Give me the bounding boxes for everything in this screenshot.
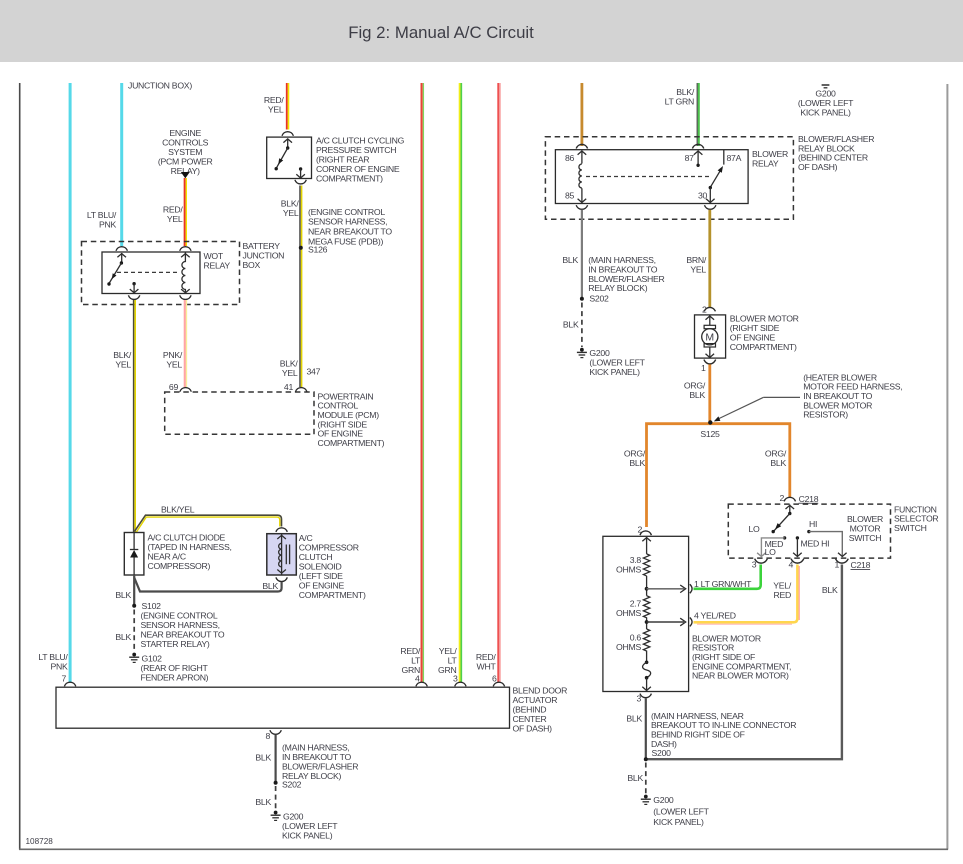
svg-text:RED/: RED/ [400,646,421,656]
svg-text:SYSTEM: SYSTEM [168,147,202,157]
svg-text:87A: 87A [727,153,742,163]
svg-text:PNK: PNK [50,662,68,672]
svg-text:BATTERY: BATTERY [243,241,281,251]
header bar [0,0,963,62]
actuator pin 7 arc [61,674,75,687]
relay arc pin 30 bottom [705,205,716,209]
svg-text:WHT: WHT [477,662,497,672]
svg-text:COMPARTMENT): COMPARTMENT) [316,174,383,184]
svg-text:RED/: RED/ [476,652,497,662]
wire BLK dashed to G200 mid [563,303,582,348]
wire BLK dashed to G200 lower right [627,763,645,795]
svg-text:MOTOR: MOTOR [850,524,881,534]
svg-text:A/C: A/C [299,533,313,543]
wire BLK/YEL from WOT relay down to diode [113,300,135,533]
wire BLK solenoid to diode junction [134,578,281,592]
splice S125 [700,420,720,439]
splice S202 mid [580,294,609,304]
svg-text:(MAIN HARNESS,: (MAIN HARNESS, [282,743,350,753]
svg-text:OHMS: OHMS [616,608,641,618]
svg-text:1: 1 [701,363,706,373]
ground G200 mid [577,348,646,377]
svg-text:OF ENGINE: OF ENGINE [730,332,776,342]
PCM pin 41 arc [284,382,307,392]
svg-text:BLK/: BLK/ [281,199,300,209]
WOT relay bottom arc (PNK/YEL) [180,295,191,299]
ground G200 lower left [271,811,339,841]
PCM pin 69 arc [169,382,191,392]
svg-text:NEAR A/C: NEAR A/C [148,551,186,561]
wire BLK actuator to S202 [255,735,358,783]
wire RED/WHT long [498,83,500,682]
tap 1 junction and arrow to terminal 1 [645,579,752,593]
svg-text:ORG/: ORG/ [624,449,646,459]
switch MED HI contact to pin 4 [793,536,829,556]
svg-text:IN BREAKOUT TO: IN BREAKOUT TO [282,752,351,762]
svg-text:BLK: BLK [626,714,642,724]
svg-text:RELAY BLOCK): RELAY BLOCK) [588,283,647,293]
svg-text:BLK: BLK [689,390,705,400]
relay link dashed [586,176,709,178]
svg-text:KICK PANEL): KICK PANEL) [589,367,640,377]
svg-text:YEL: YEL [690,264,706,274]
svg-text:BLOWER: BLOWER [752,149,788,159]
svg-text:3.8: 3.8 [630,555,642,565]
relay coil 86-85 [565,151,586,204]
function selector switch (dashed) [728,504,938,558]
ground G102 [129,653,208,683]
wire RED/YEL from triangle to WOT relay [163,178,186,246]
relay contact 87A stub and switch [710,150,741,188]
svg-text:KICK PANEL): KICK PANEL) [653,817,704,827]
relay arc pin 87 top [692,144,703,148]
svg-text:ENGINE: ENGINE [169,128,201,138]
connector C218 bottom arcs [752,559,871,570]
svg-text:8: 8 [265,731,270,741]
svg-text:JUNCTION: JUNCTION [243,251,285,261]
label BLK/YEL near switch [281,199,300,219]
svg-text:RELAY: RELAY [752,158,779,168]
svg-text:7: 7 [61,674,66,684]
svg-text:2: 2 [779,493,784,503]
svg-text:(BEHIND: (BEHIND [513,704,547,714]
svg-text:SWITCH: SWITCH [849,533,882,543]
svg-text:COMPARTMENT): COMPARTMENT) [299,590,366,600]
resistor pin 3 arc [636,693,651,703]
battery junction box (dashed) [82,241,285,304]
WOT relay coil [181,253,190,294]
svg-text:4 YEL/RED: 4 YEL/RED [694,611,736,621]
node label JUNCTION BOX (clipped remnant) [128,81,192,91]
svg-text:BLK/: BLK/ [113,350,132,360]
svg-text:PNK: PNK [99,220,117,230]
actuator pin 4 arc [415,674,427,687]
svg-text:LT GRN: LT GRN [665,96,694,106]
svg-text:STARTER RELAY): STARTER RELAY) [141,639,210,649]
wire YEL/LT GRN long [460,83,462,682]
splice S200 [644,757,648,761]
blower motor resistor box [603,536,791,691]
thermal limiter [642,661,651,691]
svg-text:BLOWER MOTOR: BLOWER MOTOR [730,313,799,323]
svg-text:BLK: BLK [255,752,271,762]
svg-text:A/C CLUTCH DIODE: A/C CLUTCH DIODE [148,532,226,542]
svg-text:OHMS: OHMS [616,565,641,575]
pressure switch top arc [282,132,293,136]
svg-text:86: 86 [565,153,575,163]
wire BLK diode to S102 [115,575,134,606]
svg-text:ACTUATOR: ACTUATOR [513,695,558,705]
svg-text:LO: LO [748,524,760,534]
svg-text:BLK/: BLK/ [280,359,299,369]
label RED/LT GRN at actuator [400,646,421,675]
svg-text:SOLENOID: SOLENOID [299,561,342,571]
svg-text:NEAR BREAKOUT TO: NEAR BREAKOUT TO [141,629,225,639]
switch MED LO contact to pin 3 [757,536,786,557]
power feed triangle [181,172,190,178]
wire BLK switch pin 1 to S200 [646,565,842,760]
svg-text:YEL: YEL [166,360,182,370]
splice S126 [299,207,393,255]
svg-text:S202: S202 [282,779,302,789]
svg-text:69: 69 [169,382,179,392]
svg-text:YEL: YEL [268,105,284,115]
wire PNK/YEL from WOT relay to PCM 69 [163,300,187,387]
wire BLK relay 85 to S202 [562,210,664,299]
resistor R2 2.7 OHMS [616,596,650,629]
wire BLK resistor pin 3 to S200 [626,698,796,759]
blower motor switch wiper [748,505,794,534]
svg-text:KICK PANEL): KICK PANEL) [800,107,851,117]
svg-text:HI: HI [809,519,817,529]
svg-text:A/C CLUTCH CYCLING: A/C CLUTCH CYCLING [316,136,405,146]
svg-text:WOT: WOT [204,251,224,261]
blower relay box [555,149,788,204]
actuator pin 8 arc [265,730,281,741]
svg-text:BOX: BOX [243,260,261,270]
label ENGINE CONTROLS SYSTEM (PCM POWER RELAY) [158,128,213,176]
svg-text:S126: S126 [308,244,328,254]
svg-text:BLK: BLK [627,773,643,783]
WOT relay terminal arc pin (coil top, cyan) [116,247,127,251]
relay arc pin 86 top [576,144,587,148]
svg-text:LT BLU/: LT BLU/ [38,652,68,662]
solenoid top arc [276,528,287,532]
label YEL/LT GRN at actuator [438,646,457,675]
svg-text:BLK: BLK [115,590,131,600]
svg-text:G200: G200 [815,88,836,98]
svg-text:BLK: BLK [255,797,271,807]
tap 2 junction and arrow to terminal 4 [645,611,736,627]
wire ORG/BLK motor to S125 [684,364,710,422]
wire BRN/YEL relay 30 to blower motor [686,210,709,308]
svg-text:OHMS: OHMS [616,642,641,652]
WOT relay bottom arc (BLK/YEL) [128,295,139,299]
svg-text:RED: RED [773,590,791,600]
svg-text:COMPRESSOR: COMPRESSOR [299,542,359,552]
svg-text:BLK/: BLK/ [676,87,695,97]
svg-text:FENDER APRON): FENDER APRON) [141,672,209,682]
svg-text:(ENGINE CONTROL: (ENGINE CONTROL [308,207,385,217]
wire BLK/YEL branch to solenoid [134,504,281,533]
svg-text:BLEND DOOR: BLEND DOOR [513,685,568,695]
svg-text:BRN/: BRN/ [686,255,707,265]
svg-text:(REAR OF RIGHT: (REAR OF RIGHT [141,663,209,673]
svg-text:NEAR BREAKOUT TO: NEAR BREAKOUT TO [308,227,392,237]
splice S102 [132,601,225,649]
svg-text:COMPARTMENT): COMPARTMENT) [730,342,797,352]
wire to tap 1 [646,576,648,596]
wire BLK/YEL pressure switch to PCM 41 [280,186,321,388]
svg-text:(RIGHT SIDE: (RIGHT SIDE [730,323,780,333]
svg-text:(PCM POWER: (PCM POWER [158,156,213,166]
svg-text:Fig 2: Manual A/C Circuit: Fig 2: Manual A/C Circuit [348,23,534,42]
svg-text:YEL: YEL [167,214,183,224]
svg-text:S200: S200 [652,748,672,758]
leader note heater blower harness [714,372,903,421]
relay arc pin 85 bottom [576,205,587,209]
svg-text:(LEFT SIDE: (LEFT SIDE [299,571,343,581]
blower motor pin 2 arc [702,304,716,314]
svg-text:G200: G200 [653,795,674,805]
svg-text:0.6: 0.6 [630,633,642,643]
svg-text:YEL: YEL [115,360,131,370]
svg-text:OF DASH): OF DASH) [798,162,838,172]
svg-text:RELAY: RELAY [204,261,231,271]
svg-text:PRESSURE SWITCH: PRESSURE SWITCH [316,145,396,155]
wire LT BLU/PNK to WOT relay [120,83,123,246]
blower/flasher relay block (dashed) [545,134,874,219]
wire ORG/BLK S125 branch left and right [624,424,790,527]
wire BLK dashed to G102 [115,610,134,653]
svg-text:(LOWER LEFT: (LOWER LEFT [798,98,854,108]
svg-text:MED HI: MED HI [801,539,830,549]
wire RED/YEL to pressure switch [287,83,289,130]
wire YEL/RED resistor to switch pin 4 [694,565,800,625]
WOT relay link (dashed) [117,271,178,273]
blend door actuator box [56,685,567,733]
splice S202 lower [274,779,302,789]
svg-text:NEAR BLOWER MOTOR): NEAR BLOWER MOTOR) [692,671,789,681]
relay contact 87 stub [685,151,703,168]
label RED/WHT at actuator [476,652,497,672]
resistor input arrow [642,537,651,554]
svg-text:YEL/: YEL/ [773,580,792,590]
svg-text:RED/: RED/ [264,95,285,105]
switch HI contact to pin 1 [807,519,846,556]
svg-text:LT: LT [448,656,458,666]
svg-text:LT BLU/: LT BLU/ [87,210,117,220]
A/C clutch cycling pressure switch [267,136,405,184]
label LT BLU/PNK upper [87,210,117,230]
svg-text:ORG/: ORG/ [765,449,787,459]
svg-text:BLK: BLK [115,632,131,642]
svg-text:108728: 108728 [26,837,54,846]
svg-text:S102: S102 [142,601,162,611]
svg-text:CONTROLS: CONTROLS [162,137,209,147]
wire BLK dashed to G200 lower left [255,786,275,811]
WOT relay terminal arc (contact top, red) [180,247,191,251]
svg-text:(LOWER LEFT: (LOWER LEFT [589,358,645,368]
svg-text:S125: S125 [700,429,720,439]
svg-text:(RIGHT REAR: (RIGHT REAR [316,155,369,165]
svg-text:CORNER OF ENGINE: CORNER OF ENGINE [316,164,400,174]
resistor R3 0.6 OHMS [616,629,650,662]
svg-text:BLK: BLK [562,255,578,265]
blower motor pin 1 arc [701,360,716,374]
svg-text:C218: C218 [799,494,819,504]
svg-text:(TAPED IN HARNESS,: (TAPED IN HARNESS, [148,542,232,552]
svg-text:COMPRESSOR): COMPRESSOR) [148,561,211,571]
wire RED/LT GRN long [422,83,424,682]
svg-text:SENSOR HARNESS,: SENSOR HARNESS, [141,620,220,630]
svg-text:ORG/: ORG/ [684,380,706,390]
svg-text:BLK: BLK [563,320,579,330]
svg-text:BLK: BLK [629,458,645,468]
svg-text:JUNCTION BOX): JUNCTION BOX) [128,81,192,91]
wire BLK/LT GRN to blower relay 87 [665,83,699,146]
svg-text:BLOWER: BLOWER [847,514,883,524]
svg-text:PNK/: PNK/ [163,350,183,360]
A/C clutch diode [124,532,231,575]
WOT relay switch contact [107,253,126,286]
svg-text:CLUTCH: CLUTCH [299,552,333,562]
WOT relay U-BJB [102,251,230,293]
svg-text:S202: S202 [589,294,609,304]
svg-text:(ENGINE CONTROL: (ENGINE CONTROL [141,610,218,620]
actuator pin 6 arc [492,674,505,687]
svg-text:SWITCH: SWITCH [894,523,927,533]
svg-text:41: 41 [284,382,294,392]
svg-text:2.7: 2.7 [630,599,642,609]
svg-text:YEL/: YEL/ [439,646,458,656]
svg-text:SENSOR HARNESS,: SENSOR HARNESS, [308,217,387,227]
svg-text:G200: G200 [589,348,610,358]
wire BRN to blower relay 86 [581,83,584,146]
svg-text:(LOWER LEFT: (LOWER LEFT [282,821,338,831]
svg-text:BLK: BLK [262,581,278,591]
svg-text:OF DASH): OF DASH) [513,723,553,733]
svg-text:KICK PANEL): KICK PANEL) [282,830,333,840]
svg-text:LO: LO [765,547,777,557]
svg-text:85: 85 [565,191,575,201]
svg-text:BLK: BLK [770,458,786,468]
svg-text:CENTER: CENTER [513,714,547,724]
svg-text:OF ENGINE: OF ENGINE [299,580,345,590]
solenoid bottom arc [262,577,287,590]
svg-text:BLK/YEL: BLK/YEL [161,504,195,514]
svg-text:RESISTOR): RESISTOR) [803,410,848,420]
pressure switch contacts [275,139,305,179]
svg-text:M: M [705,332,714,344]
label RED/YEL upper [264,95,285,115]
resistor pin 2 arc [637,524,651,535]
svg-text:347: 347 [307,366,321,376]
actuator pin 3 arc [453,674,466,687]
svg-text:BLOWER/FLASHER: BLOWER/FLASHER [282,762,358,772]
svg-text:G102: G102 [142,653,163,663]
svg-text:G200: G200 [283,811,304,821]
ground G200 top right [798,85,854,117]
relay pin 30 [698,186,715,203]
blower motor M1 [695,313,799,358]
svg-text:RED/: RED/ [163,205,184,215]
WOT relay common terminal w arrow [130,282,139,293]
svg-text:COMPARTMENT): COMPARTMENT) [318,438,385,448]
svg-text:BLK: BLK [822,585,838,595]
svg-text:(LOWER LEFT: (LOWER LEFT [653,807,709,817]
A/C compressor clutch solenoid [267,533,366,600]
resistor R1 3.8 OHMS [616,554,650,576]
wire LT GRN/WHT resistor to switch pin 3 [694,565,761,589]
svg-text:87: 87 [685,153,695,163]
svg-text:LT: LT [411,656,421,666]
label LT BLU/PNK at actuator [38,652,68,672]
svg-text:YEL: YEL [283,208,299,218]
connector C218 top [779,493,818,504]
wire LT BLU/PNK long left [69,83,72,682]
svg-text:C218: C218 [851,560,871,570]
ground G200 lower right [641,795,710,827]
pressure switch bottom arc [295,180,306,184]
powertrain control module PCM (dashed) [165,391,385,448]
svg-text:YEL: YEL [282,368,298,378]
